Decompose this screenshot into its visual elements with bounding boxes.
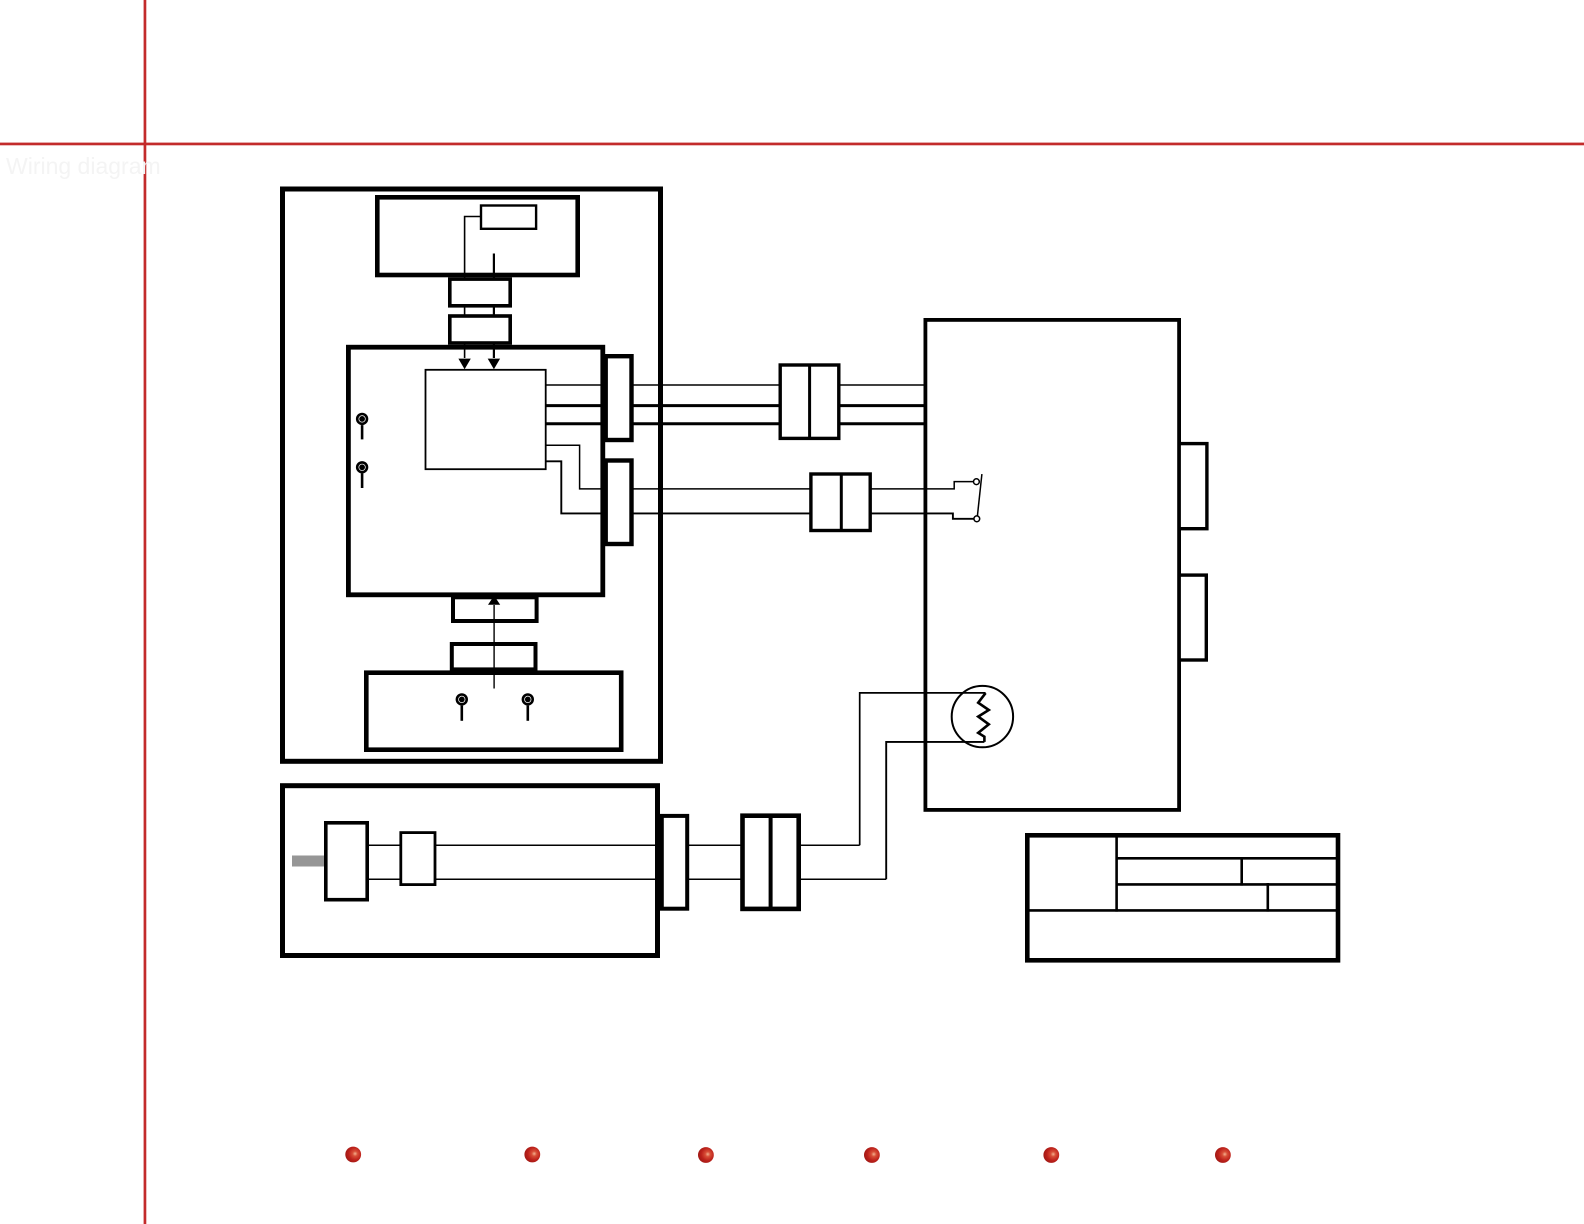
node: red marker dot 3 [698, 1147, 714, 1163]
wire W3 logic to junction box [546, 422, 924, 425]
connector X3 on U4 edge [606, 461, 632, 545]
connector X10 lower half [452, 644, 536, 669]
table row line 2 [1117, 883, 1338, 886]
wire: horizontal red guide line [0, 143, 1584, 146]
terminal TP2 [357, 462, 367, 488]
U4 main board box [348, 347, 602, 595]
in-line connector X9 [743, 816, 799, 909]
connector X8 on U7 edge [662, 816, 687, 909]
wire W2 logic to junction box [546, 404, 924, 407]
connector X1 lower half [450, 316, 510, 343]
wire: vertical red guide line [144, 0, 147, 1224]
in-line connector X5 [811, 474, 870, 531]
wire W9 motor lower lead [369, 878, 886, 880]
node: red marker dot 5 [1043, 1147, 1059, 1163]
terminal TP4 [523, 695, 533, 721]
wire from U3 to logic block [465, 217, 481, 359]
wire W1 logic to junction box (thin) [546, 384, 924, 386]
wire W7 up to RT1 bottom [886, 742, 984, 879]
connector X5 mating divider [840, 474, 843, 531]
table divider vertical 2 [1240, 857, 1243, 886]
node: red marker dot 2 [524, 1147, 540, 1163]
wire W5 logic to switch S1 lower contact [546, 461, 974, 519]
table divider vertical 1 [1115, 835, 1118, 911]
node: red marker dot 1 [345, 1147, 361, 1163]
U8 drive sub-block [401, 833, 435, 885]
connector X2 on U4 edge [606, 356, 632, 440]
wire W4 logic to switch S1 upper contact [546, 445, 974, 489]
connector X7 on U6 right edge [1179, 575, 1206, 660]
connector X6 on U6 right edge [1179, 444, 1207, 529]
in-line connector X4 [780, 365, 839, 438]
terminal TP3 [457, 695, 467, 721]
wire W8 motor upper lead [369, 844, 860, 846]
thermistor RT1 circle [952, 686, 1013, 747]
wire W6 up to RT1 top [860, 693, 986, 845]
connector X10 upper half [453, 597, 537, 621]
connector X4 mating divider [808, 365, 811, 438]
U2 display unit box [377, 197, 577, 275]
U9 sensor block box [366, 673, 621, 750]
title block table frame [1027, 835, 1338, 960]
terminal TP1 [357, 414, 367, 439]
table divider vertical 3 [1267, 883, 1270, 912]
connector X9 mating divider [769, 816, 773, 909]
thermistor RT1 resistive element [978, 693, 989, 742]
U1 control module outer enclosure [283, 189, 661, 761]
wire from U2 down to logic block [493, 254, 495, 359]
arrow into logic block (right) [488, 359, 500, 370]
node: red marker dot 4 [864, 1147, 880, 1163]
table row line 1 [1117, 857, 1338, 860]
node: red marker dot 6 [1215, 1147, 1231, 1163]
M1 motor shaft [292, 856, 326, 867]
svg-text:Wiring diagram: Wiring diagram [6, 153, 161, 179]
arrow into logic block (left) [458, 359, 470, 370]
arrow from sensor block U9 up into U4 [488, 596, 500, 689]
connector X1 upper half [450, 279, 510, 306]
U7 actuator unit box [283, 786, 658, 956]
U6 junction box [925, 320, 1179, 810]
U5 logic block [426, 370, 546, 469]
table row line 3 [1027, 909, 1338, 912]
U3 indicator sub-block [481, 206, 536, 229]
switch S1 [974, 474, 982, 522]
M1 motor body [326, 823, 367, 900]
